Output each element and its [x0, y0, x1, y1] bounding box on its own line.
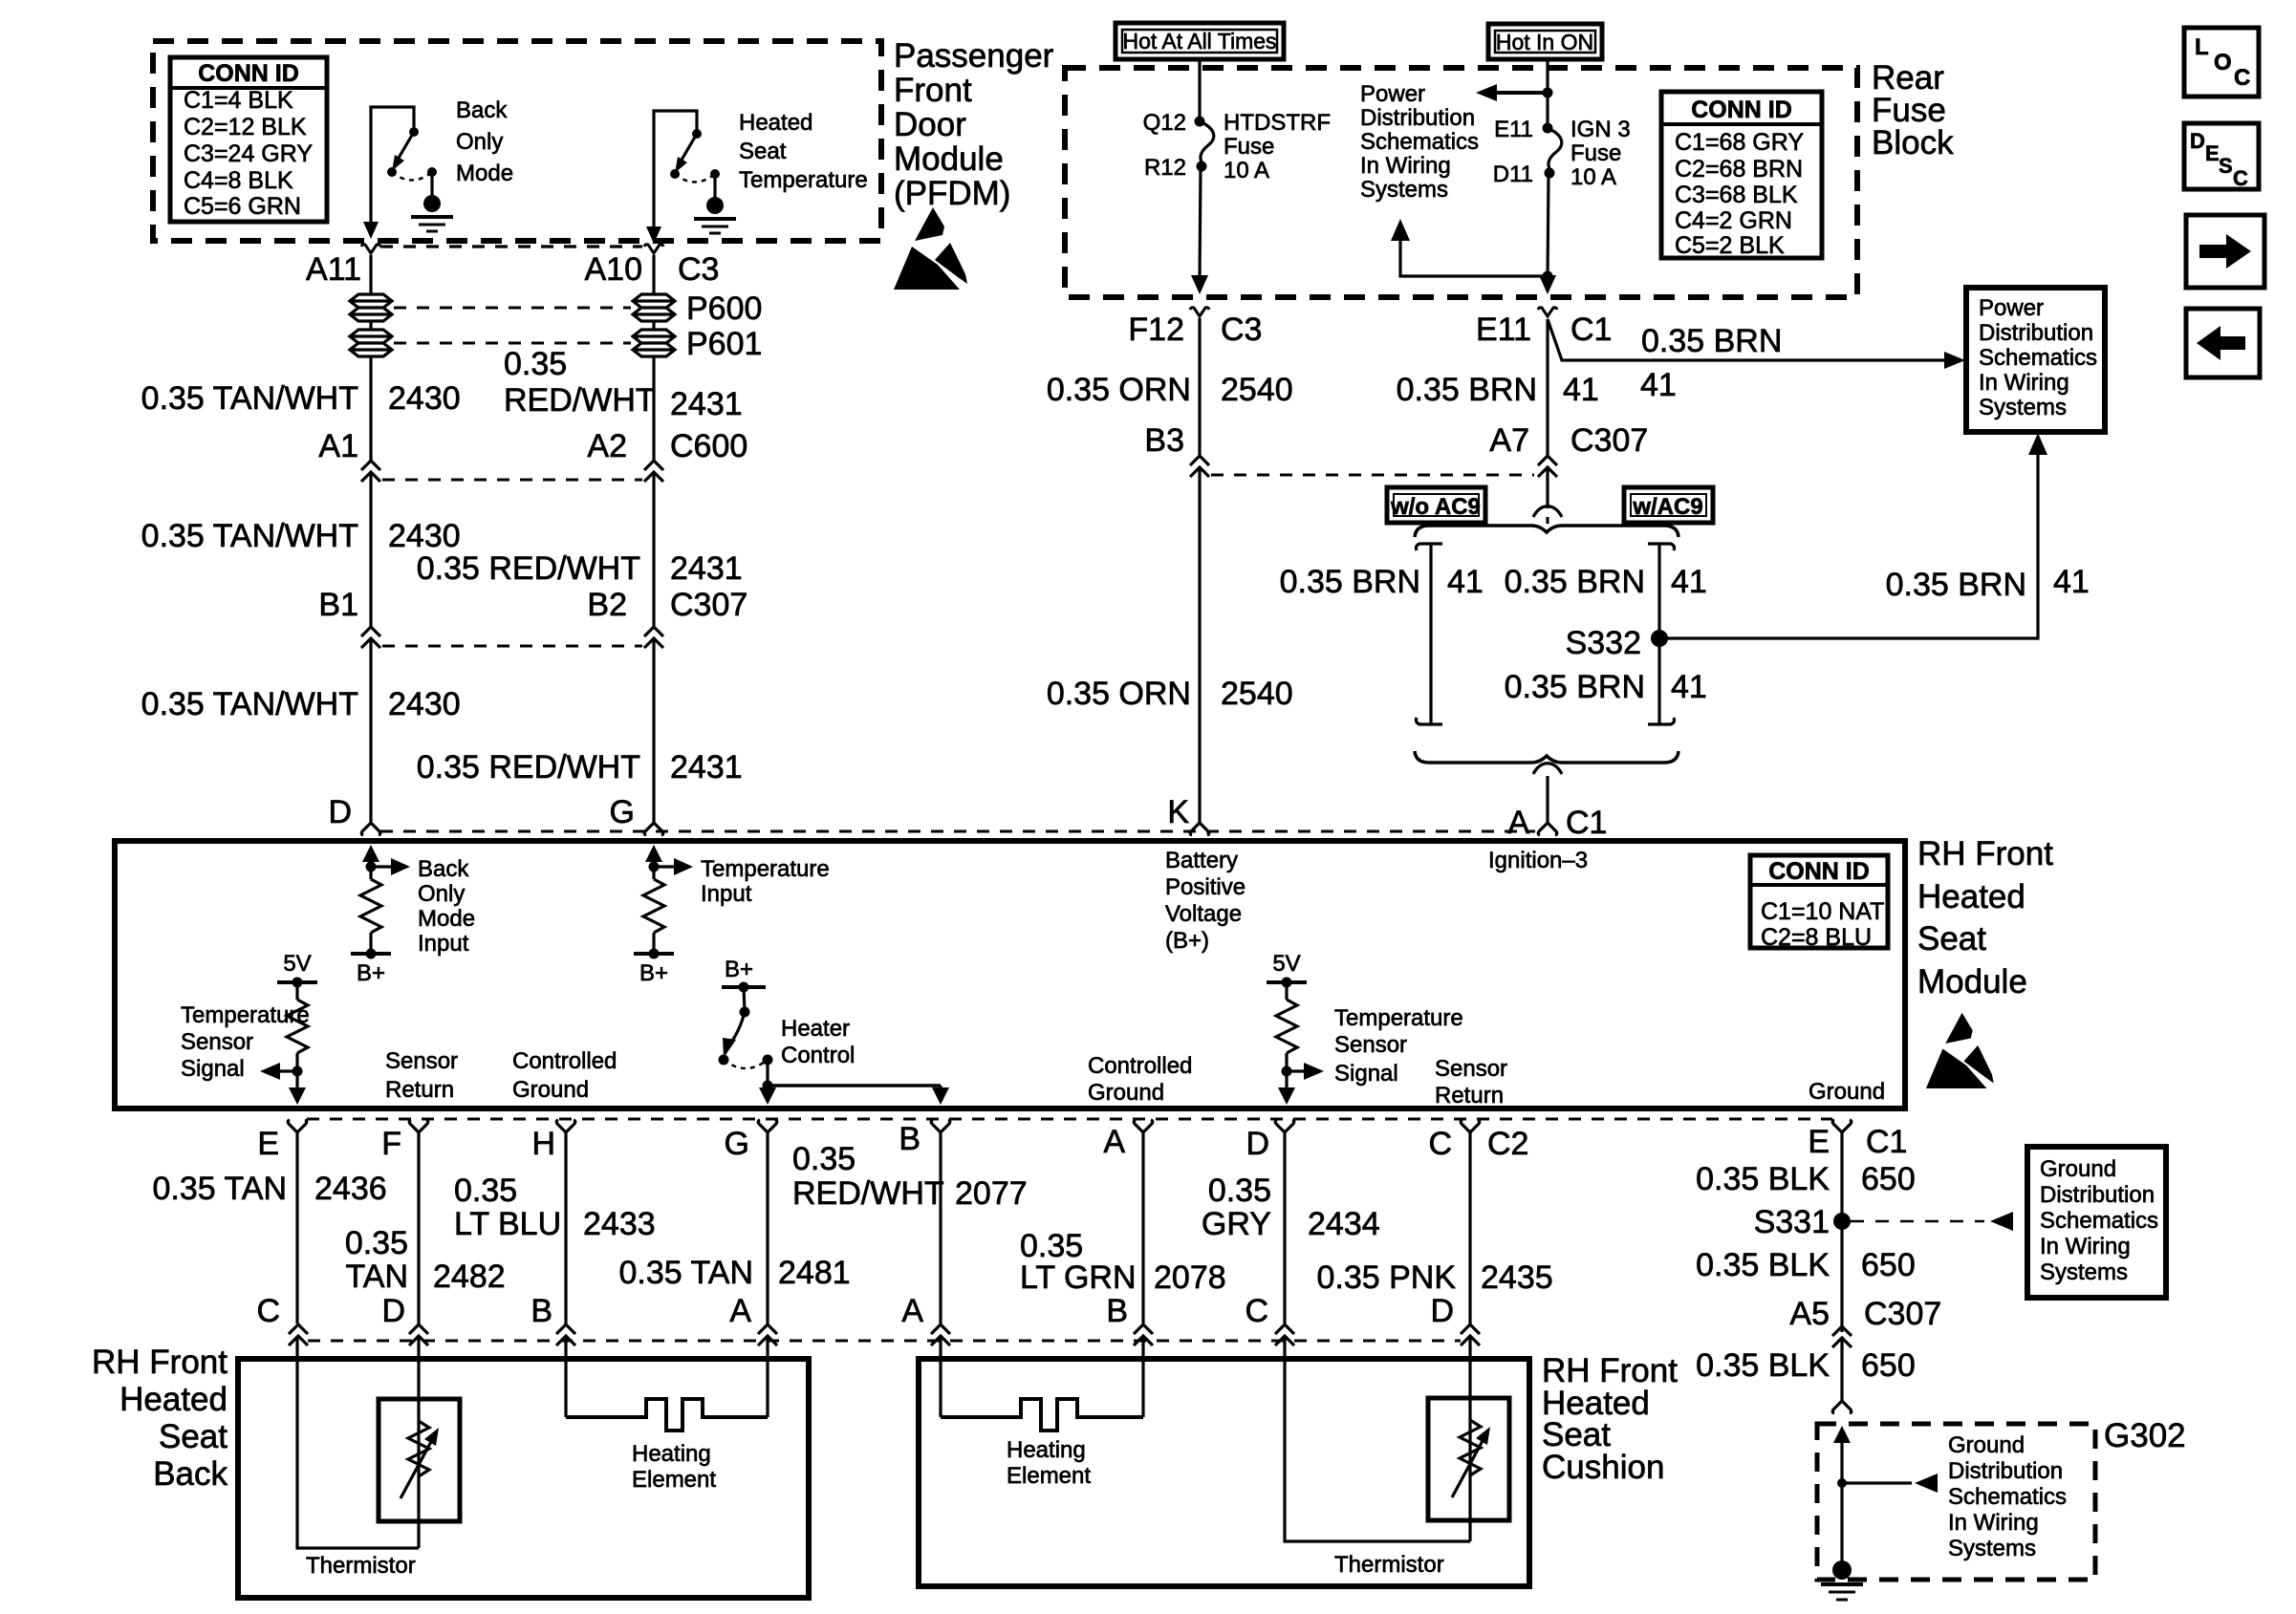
- node C / C2: [1428, 1120, 1528, 1162]
- ground G302 dashed box: [1817, 1424, 2095, 1580]
- svg-text:B+: B+: [725, 957, 753, 982]
- label 0.35 RED/WHT 2431 (3): [417, 749, 743, 785]
- wire 2430 segment 2: [369, 473, 372, 627]
- svg-text:R12: R12: [1144, 155, 1186, 181]
- label IGN 3 Fuse 10 A: [1570, 117, 1631, 190]
- svg-text:0.35 BRN: 0.35 BRN: [1641, 323, 1782, 359]
- svg-text:0.35 TAN/WHT: 0.35 TAN/WHT: [141, 380, 358, 417]
- label RH Front Heated Seat Module: [1917, 835, 2053, 1001]
- wire 2540 segment 2: [1198, 468, 1201, 823]
- label 0.35 GRY 2434: [1202, 1173, 1380, 1242]
- svg-text:Fuse: Fuse: [1224, 134, 1274, 160]
- wire C307 connector row dashed: [382, 645, 642, 648]
- reference box Ground Distribution Schematics In Wiring Systems: [2027, 1147, 2166, 1298]
- svg-text:GRY: GRY: [1202, 1206, 1271, 1242]
- node C (cushion): [1245, 1293, 1294, 1345]
- svg-text:0.35 ORN: 0.35 ORN: [1047, 372, 1191, 408]
- svg-text:A: A: [901, 1293, 923, 1329]
- label Ground Distribution Schematics In Wiring Systems (G302): [1948, 1432, 2067, 1561]
- node G302 connector fork: [1832, 1401, 1852, 1413]
- svg-text:Schematics: Schematics: [1360, 129, 1479, 155]
- connector P601 right: [633, 330, 675, 356]
- wire 2540 segment 1: [1198, 318, 1201, 456]
- svg-text:0.35 BRN: 0.35 BRN: [1397, 372, 1537, 408]
- node A5 / C307: [1789, 1296, 1941, 1347]
- wire C600 connector row dashed: [382, 479, 642, 482]
- wire 2431 segment 3: [652, 639, 655, 823]
- svg-text:LT BLU: LT BLU: [454, 1206, 561, 1242]
- svg-text:0.35 BLK: 0.35 BLK: [1696, 1161, 1830, 1197]
- svg-text:Only: Only: [456, 129, 503, 155]
- wire between P600 P601 right: [652, 321, 655, 329]
- svg-text:Back: Back: [153, 1455, 227, 1493]
- wire 41 segment to A7: [1546, 319, 1549, 456]
- node A / C1 (module): [1507, 805, 1607, 841]
- svg-text:C1=68 GRY: C1=68 GRY: [1675, 129, 1804, 156]
- svg-text:0.35 TAN: 0.35 TAN: [153, 1171, 287, 1207]
- svg-text:C4=8 BLK: C4=8 BLK: [184, 167, 293, 194]
- svg-text:Q12: Q12: [1143, 110, 1186, 136]
- svg-text:Return: Return: [1435, 1083, 1504, 1108]
- wire hot feed to fuse HTDSTRF: [1198, 59, 1201, 119]
- svg-text:Hot At All Times: Hot At All Times: [1122, 29, 1276, 54]
- svg-text:0.35 BRN: 0.35 BRN: [1886, 567, 2026, 603]
- svg-text:650: 650: [1861, 1347, 1916, 1384]
- label Rear Fuse Block: [1872, 59, 1954, 161]
- label 0.35 TAN 2481: [619, 1255, 851, 1291]
- svg-text:Schematics: Schematics: [1979, 345, 2097, 371]
- wire A10 to P600: [652, 255, 655, 293]
- svg-text:In Wiring: In Wiring: [1948, 1510, 2039, 1536]
- wire C3 connector row dashed: [380, 245, 642, 247]
- svg-text:Systems: Systems: [1948, 1536, 2036, 1561]
- svg-text:A: A: [729, 1293, 751, 1329]
- svg-text:Mode: Mode: [418, 906, 475, 932]
- resistor temperature sensor left: [260, 951, 317, 1105]
- svg-text:Distribution: Distribution: [2040, 1182, 2155, 1208]
- svg-text:Fuse: Fuse: [1570, 140, 1621, 166]
- node A11: [306, 245, 380, 288]
- svg-text:Temperature: Temperature: [181, 1002, 310, 1028]
- wire 650 segment 1: [1840, 1132, 1843, 1332]
- brace bottom merge: [1415, 751, 1679, 763]
- fuse HTDSTRF 10A: [1191, 117, 1214, 295]
- fuse block CONN ID table: [1661, 92, 1822, 259]
- PFDM CONN ID table: [170, 57, 327, 222]
- svg-text:HTDSTRF: HTDSTRF: [1224, 110, 1331, 136]
- svg-text:Seat: Seat: [739, 139, 787, 164]
- module PFDM dashed box: [153, 41, 881, 241]
- node D (module): [328, 794, 379, 835]
- svg-text:Voltage: Voltage: [1165, 901, 1242, 927]
- svg-text:0.35 TAN/WHT: 0.35 TAN/WHT: [141, 518, 358, 554]
- wire 2431 segment 1: [652, 356, 655, 461]
- svg-text:S331: S331: [1754, 1204, 1830, 1240]
- component RH Front Heated Seat Cushion box: [919, 1359, 1529, 1586]
- junction to power distribution arrow: [1476, 84, 1553, 101]
- svg-text:Module: Module: [1917, 963, 2027, 1001]
- svg-text:Sensor: Sensor: [1334, 1032, 1407, 1058]
- svg-text:G: G: [610, 794, 635, 830]
- svg-text:10 A: 10 A: [1570, 164, 1616, 190]
- label 0.35 RED/WHT 2077: [792, 1141, 1028, 1212]
- svg-text:RED/WHT: RED/WHT: [792, 1175, 944, 1212]
- label 0.35 BRN 41 (S332 right): [1886, 564, 2090, 603]
- label Controlled Ground (right): [1088, 1053, 1192, 1106]
- svg-text:E: E: [1808, 1124, 1830, 1160]
- svg-text:41: 41: [1671, 669, 1707, 705]
- svg-text:0.35 BRN: 0.35 BRN: [1505, 564, 1645, 600]
- svg-text:H: H: [531, 1126, 555, 1162]
- wire 650 segment 3: [1840, 1338, 1843, 1401]
- svg-text:Sensor: Sensor: [1435, 1056, 1507, 1082]
- label 0.35 TAN 2482: [345, 1225, 506, 1295]
- svg-text:0.35 TAN/WHT: 0.35 TAN/WHT: [141, 686, 358, 722]
- label 0.35 RED/WHT 2431 (2): [417, 550, 743, 587]
- svg-text:Schematics: Schematics: [2040, 1208, 2158, 1234]
- wire 2434: [1283, 1132, 1286, 1323]
- rear fuse block dashed box: [1065, 68, 1857, 297]
- svg-text:2077: 2077: [955, 1175, 1028, 1212]
- svg-text:Hot In ON: Hot In ON: [1496, 30, 1593, 54]
- svg-text:C1=4 BLK: C1=4 BLK: [184, 87, 293, 114]
- svg-text:2436: 2436: [314, 1171, 387, 1207]
- icon box arrow left: [2186, 309, 2260, 377]
- svg-text:F12: F12: [1128, 312, 1184, 348]
- icon box LOC: [2184, 28, 2259, 97]
- svg-text:2481: 2481: [778, 1255, 851, 1291]
- module CONN ID table: [1750, 855, 1888, 951]
- svg-text:Ground: Ground: [2040, 1156, 2116, 1182]
- label 0.35 TAN/WHT 2430 (1): [141, 380, 461, 417]
- node A (seat back): [729, 1293, 777, 1345]
- label Sensor Return (left): [385, 1048, 458, 1103]
- wire into G302: [1833, 1426, 1851, 1563]
- svg-text:CONN ID: CONN ID: [198, 60, 299, 87]
- splice S331: [1754, 1204, 1851, 1240]
- node D (cushion): [1430, 1293, 1480, 1345]
- label Heating Element (cushion): [1007, 1437, 1091, 1489]
- svg-text:C1=10 NAT: C1=10 NAT: [1761, 898, 1884, 925]
- svg-text:(PFDM): (PFDM): [894, 175, 1010, 212]
- label Power Distribution Schematics In Wiring Systems (fuse block): [1360, 81, 1479, 203]
- svg-text:D: D: [328, 794, 352, 830]
- svg-text:Distribution: Distribution: [1948, 1458, 2063, 1484]
- branch w/o AC9 wire: [1416, 544, 1442, 724]
- svg-text:41: 41: [2053, 564, 2090, 600]
- label Controlled Ground (left): [512, 1048, 617, 1103]
- svg-text:E11: E11: [1494, 117, 1533, 142]
- svg-text:Systems: Systems: [2040, 1259, 2128, 1285]
- wire hot in ON feed: [1546, 59, 1549, 126]
- resistor Back Only Mode Input: [351, 845, 410, 959]
- svg-text:C3=68 BLK: C3=68 BLK: [1675, 182, 1798, 208]
- connector P600 left: [350, 294, 392, 321]
- label 0.35 LT BLU 2433: [454, 1173, 656, 1242]
- wire P600 dashed link: [394, 307, 631, 310]
- svg-text:B+: B+: [639, 960, 668, 986]
- svg-text:Input: Input: [418, 931, 469, 957]
- bottom connector row dashed: [308, 1340, 1461, 1343]
- svg-text:0.35: 0.35: [454, 1173, 517, 1209]
- svg-text:B2: B2: [587, 587, 627, 623]
- label Battery Positive Voltage (B+): [1165, 848, 1245, 954]
- wire 2430 segment 1: [369, 356, 372, 461]
- label 0.35 BLK 650 (1): [1696, 1161, 1916, 1197]
- svg-text:A7: A7: [1489, 422, 1529, 459]
- node D (seat back): [381, 1293, 428, 1345]
- icon box arrow right: [2186, 215, 2264, 288]
- node A2 / C600: [587, 428, 747, 482]
- icon box DESC: [2184, 123, 2259, 190]
- wire below A7 with option break: [1533, 468, 1562, 524]
- svg-text:Power: Power: [1979, 295, 2044, 321]
- svg-text:D: D: [1245, 1126, 1269, 1162]
- wire 2481: [766, 1132, 769, 1323]
- node A10 / C3: [585, 245, 720, 288]
- svg-text:G302: G302: [2104, 1417, 2186, 1454]
- wire 2078: [1141, 1132, 1144, 1323]
- svg-text:0.35 TAN: 0.35 TAN: [619, 1255, 753, 1291]
- svg-text:Sensor: Sensor: [181, 1029, 253, 1055]
- svg-text:L: L: [2195, 34, 2209, 60]
- label Sensor Return (right): [1435, 1056, 1507, 1108]
- svg-text:Mode: Mode: [456, 161, 513, 186]
- resistor Temperature Input: [634, 845, 693, 959]
- label 0.35 LT GRN 2078: [1020, 1228, 1226, 1296]
- svg-text:Systems: Systems: [1360, 177, 1448, 203]
- wire P601 dashed link: [394, 342, 631, 345]
- switch heater control: [719, 957, 950, 1105]
- wire to module ignition input: [1533, 764, 1562, 823]
- svg-text:C2=12 BLK: C2=12 BLK: [184, 114, 307, 140]
- svg-text:Distribution: Distribution: [1360, 105, 1475, 131]
- svg-text:C1: C1: [1866, 1124, 1907, 1160]
- svg-text:C307: C307: [1570, 422, 1648, 459]
- svg-text:G: G: [725, 1126, 749, 1162]
- switch S2 Heated Seat Temperature: [646, 111, 736, 244]
- svg-text:C: C: [1245, 1293, 1268, 1329]
- svg-text:2433: 2433: [583, 1206, 656, 1242]
- svg-text:CONN ID: CONN ID: [1768, 858, 1870, 885]
- svg-text:Heating: Heating: [632, 1441, 711, 1467]
- wire C307 row dashed (fuse side): [1211, 474, 1534, 477]
- ESD symbol PFDM: [894, 207, 967, 290]
- svg-text:Heater: Heater: [781, 1016, 850, 1042]
- svg-text:C2=8 BLU: C2=8 BLU: [1761, 924, 1872, 951]
- svg-text:Signal: Signal: [181, 1056, 245, 1082]
- connector P600 right: [633, 294, 675, 321]
- svg-text:C5=6 GRN: C5=6 GRN: [184, 193, 301, 220]
- reference box Power Distribution Schematics In Wiring Systems: [1966, 288, 2105, 432]
- svg-text:0.35 BRN: 0.35 BRN: [1280, 564, 1420, 600]
- svg-text:A: A: [1507, 805, 1529, 841]
- svg-text:C3=24 GRY: C3=24 GRY: [184, 140, 313, 167]
- svg-text:41: 41: [1447, 564, 1484, 600]
- svg-text:(B+): (B+): [1165, 928, 1209, 954]
- svg-text:Distribution: Distribution: [1979, 320, 2093, 346]
- svg-text:B+: B+: [357, 960, 385, 986]
- svg-text:41: 41: [1640, 367, 1677, 403]
- node A (cushion heater): [1103, 1120, 1152, 1160]
- svg-text:P600: P600: [686, 291, 762, 327]
- svg-text:650: 650: [1861, 1247, 1916, 1283]
- svg-text:CONN ID: CONN ID: [1691, 97, 1792, 123]
- svg-text:B: B: [899, 1121, 921, 1157]
- svg-text:F: F: [381, 1126, 401, 1162]
- svg-text:C3: C3: [678, 251, 719, 288]
- node E / C1 (ground): [1808, 1120, 1907, 1160]
- svg-text:Control: Control: [781, 1043, 855, 1068]
- wire between P600 P601 left: [369, 321, 372, 329]
- svg-text:E11: E11: [1476, 312, 1531, 348]
- thermistor cushion: [1428, 1398, 1509, 1520]
- label Passenger Front Door Module (PFDM): [894, 37, 1054, 212]
- svg-text:0.35 BLK: 0.35 BLK: [1696, 1347, 1830, 1384]
- svg-text:C1: C1: [1566, 805, 1607, 841]
- node B3: [1144, 422, 1209, 477]
- svg-text:2430: 2430: [388, 518, 461, 554]
- label 0.35 TAN/WHT 2430 (2): [141, 518, 461, 554]
- wire 2435: [1468, 1132, 1471, 1323]
- svg-text:B3: B3: [1144, 422, 1184, 459]
- label 0.35 BRN 41 (A7): [1397, 372, 1599, 408]
- svg-text:A5: A5: [1789, 1296, 1830, 1332]
- svg-text:2540: 2540: [1221, 372, 1293, 408]
- heating element cushion: [941, 1337, 1143, 1431]
- svg-text:Controlled: Controlled: [512, 1048, 617, 1074]
- svg-text:P601: P601: [686, 326, 762, 362]
- module RH Front Heated Seat Module box: [115, 841, 1905, 1108]
- label RH Front Heated Seat Back: [92, 1344, 227, 1493]
- svg-text:Thermistor: Thermistor: [306, 1553, 416, 1579]
- label 0.35 BRN 41 (branch): [1640, 323, 1782, 403]
- svg-text:Passenger: Passenger: [894, 37, 1054, 75]
- label 0.35 TAN 2436: [153, 1171, 387, 1207]
- svg-text:C: C: [2233, 166, 2248, 190]
- heating element seat back: [566, 1337, 768, 1431]
- svg-text:w/o AC9: w/o AC9: [1390, 494, 1481, 520]
- svg-text:0.35: 0.35: [1208, 1173, 1271, 1209]
- svg-text:Seat: Seat: [1917, 920, 1986, 958]
- wire module C1 connector row dashed: [380, 830, 1535, 833]
- wire seat back sensor loop: [297, 1337, 419, 1548]
- svg-text:RH Front: RH Front: [92, 1344, 227, 1381]
- svg-text:0.35: 0.35: [345, 1225, 408, 1261]
- wire 2482: [417, 1132, 420, 1323]
- wire 2077: [939, 1132, 942, 1323]
- label Back Only Mode: [456, 97, 513, 186]
- svg-text:K: K: [1167, 794, 1189, 830]
- svg-text:Door: Door: [894, 106, 966, 143]
- label Q12 R12: [1143, 110, 1186, 181]
- label Temperature Sensor Signal (left): [181, 1002, 310, 1082]
- svg-text:D11: D11: [1493, 161, 1533, 187]
- node D (cushion sensor): [1245, 1120, 1293, 1162]
- svg-text:Return: Return: [385, 1077, 454, 1103]
- svg-text:Heating: Heating: [1007, 1437, 1086, 1463]
- svg-text:C307: C307: [670, 587, 747, 623]
- node B (cushion): [1106, 1293, 1153, 1345]
- svg-text:650: 650: [1861, 1161, 1916, 1197]
- component RH Front Heated Seat Back box: [238, 1359, 809, 1598]
- svg-text:C3: C3: [1221, 312, 1262, 348]
- label 0.35 ORN 2540 (2): [1047, 676, 1293, 712]
- svg-text:A1: A1: [318, 428, 358, 464]
- svg-text:C: C: [2234, 65, 2250, 91]
- resistor temperature sensor right: [1267, 951, 1324, 1105]
- svg-text:5V: 5V: [283, 951, 311, 977]
- svg-text:Module: Module: [894, 140, 1004, 178]
- svg-text:C307: C307: [1864, 1296, 1941, 1332]
- svg-text:B: B: [531, 1293, 552, 1329]
- svg-text:Seat: Seat: [159, 1418, 227, 1455]
- label 0.35 TAN/WHT 2430 (3): [141, 686, 461, 722]
- svg-text:Positive: Positive: [1165, 874, 1245, 900]
- node B1: [318, 587, 380, 648]
- svg-text:E: E: [2205, 141, 2220, 165]
- connector P601 left: [350, 330, 392, 356]
- svg-text:Ground: Ground: [512, 1077, 589, 1103]
- svg-text:Schematics: Schematics: [1948, 1484, 2067, 1510]
- svg-text:Ignition–3: Ignition–3: [1488, 848, 1588, 873]
- node G (module): [610, 794, 663, 835]
- svg-text:IGN 3: IGN 3: [1570, 117, 1631, 142]
- wire A11 to P600: [369, 255, 372, 293]
- svg-text:Signal: Signal: [1334, 1061, 1398, 1087]
- svg-text:Temperature: Temperature: [739, 167, 868, 193]
- label Heater Control: [781, 1016, 855, 1068]
- svg-text:0.35 BLK: 0.35 BLK: [1696, 1247, 1830, 1283]
- svg-text:C5=2 BLK: C5=2 BLK: [1675, 232, 1785, 259]
- svg-text:41: 41: [1563, 372, 1599, 408]
- fuse IGN 3 10A: [1539, 123, 1562, 295]
- svg-text:Temperature: Temperature: [701, 856, 830, 882]
- node A1: [318, 428, 380, 482]
- node H: [531, 1120, 574, 1162]
- svg-text:Element: Element: [632, 1467, 716, 1493]
- splice S332: [1566, 625, 1668, 661]
- node G (heater): [725, 1120, 777, 1162]
- svg-text:0.35 RED/WHT: 0.35 RED/WHT: [417, 550, 640, 587]
- svg-text:A10: A10: [585, 251, 643, 288]
- label 0.35 RED/WHT 2431 (1): [504, 346, 743, 422]
- label 0.35 ORN 2540 (1): [1047, 372, 1293, 408]
- svg-text:B1: B1: [318, 587, 358, 623]
- node A (cushion): [901, 1293, 950, 1345]
- svg-text:Ground: Ground: [1809, 1079, 1885, 1105]
- svg-text:RH Front: RH Front: [1917, 835, 2053, 872]
- option box w/o AC9: [1387, 487, 1485, 523]
- label Temperature Sensor Signal (right): [1334, 1005, 1463, 1087]
- svg-text:2434: 2434: [1308, 1206, 1380, 1242]
- svg-text:RED/WHT: RED/WHT: [504, 382, 656, 419]
- svg-text:TAN: TAN: [346, 1259, 408, 1295]
- svg-text:Heated: Heated: [119, 1381, 227, 1418]
- svg-text:2435: 2435: [1481, 1259, 1553, 1296]
- svg-text:A11: A11: [306, 251, 361, 288]
- svg-text:2430: 2430: [388, 686, 461, 722]
- option box w/AC9: [1624, 487, 1713, 523]
- svg-text:In Wiring: In Wiring: [1360, 153, 1451, 179]
- svg-text:2540: 2540: [1221, 676, 1293, 712]
- node B (heater): [899, 1120, 949, 1157]
- svg-text:Ground: Ground: [1088, 1080, 1164, 1106]
- node F: [381, 1120, 428, 1162]
- svg-text:A: A: [1103, 1124, 1125, 1160]
- label HTDSTRF Fuse 10 A: [1224, 110, 1331, 183]
- svg-text:Power: Power: [1360, 81, 1425, 107]
